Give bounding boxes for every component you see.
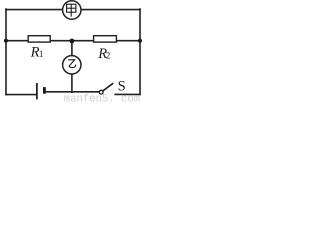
wire middle row left (to R1) bbox=[6, 40, 28, 42]
label R1 bbox=[30, 45, 44, 61]
wire branch junction to meter yi bbox=[71, 41, 73, 56]
wire top-right segment bbox=[81, 9, 140, 11]
battery long plate (positive) bbox=[36, 83, 38, 99]
switch pivot circle bbox=[99, 90, 103, 94]
resistor R2 bbox=[94, 36, 117, 42]
switch lever bbox=[103, 83, 113, 91]
label R2 bbox=[97, 46, 110, 62]
wire battery to switch bbox=[45, 91, 100, 93]
label S bbox=[118, 78, 126, 94]
junction dot left bbox=[4, 39, 8, 43]
wire top-left segment bbox=[6, 9, 63, 11]
wire left side bbox=[5, 9, 7, 95]
wire middle row center (R1 to R2) bbox=[50, 40, 94, 42]
junction dot right bbox=[138, 39, 142, 43]
svg-text:manfen5. com: manfen5. com bbox=[64, 93, 140, 103]
svg-text:1: 1 bbox=[39, 49, 44, 59]
wire meter yi to bottom bbox=[71, 74, 73, 92]
svg-text:2: 2 bbox=[106, 51, 111, 61]
meter yi (middle, circle with 乙) bbox=[63, 56, 81, 74]
resistor R1 bbox=[28, 36, 50, 42]
battery short plate (negative) bbox=[43, 87, 46, 94]
wire right side bbox=[139, 9, 141, 94]
wire middle row right (R2 to right side) bbox=[116, 40, 140, 42]
watermark manfen5.com bbox=[64, 93, 140, 105]
svg-text:S: S bbox=[118, 78, 126, 94]
wire switch to bottom-right corner bbox=[115, 93, 140, 95]
meter jia (top ammeter, circle with 甲) bbox=[63, 1, 81, 19]
wire bottom-left to battery bbox=[6, 94, 37, 96]
junction dot center bbox=[70, 39, 75, 44]
